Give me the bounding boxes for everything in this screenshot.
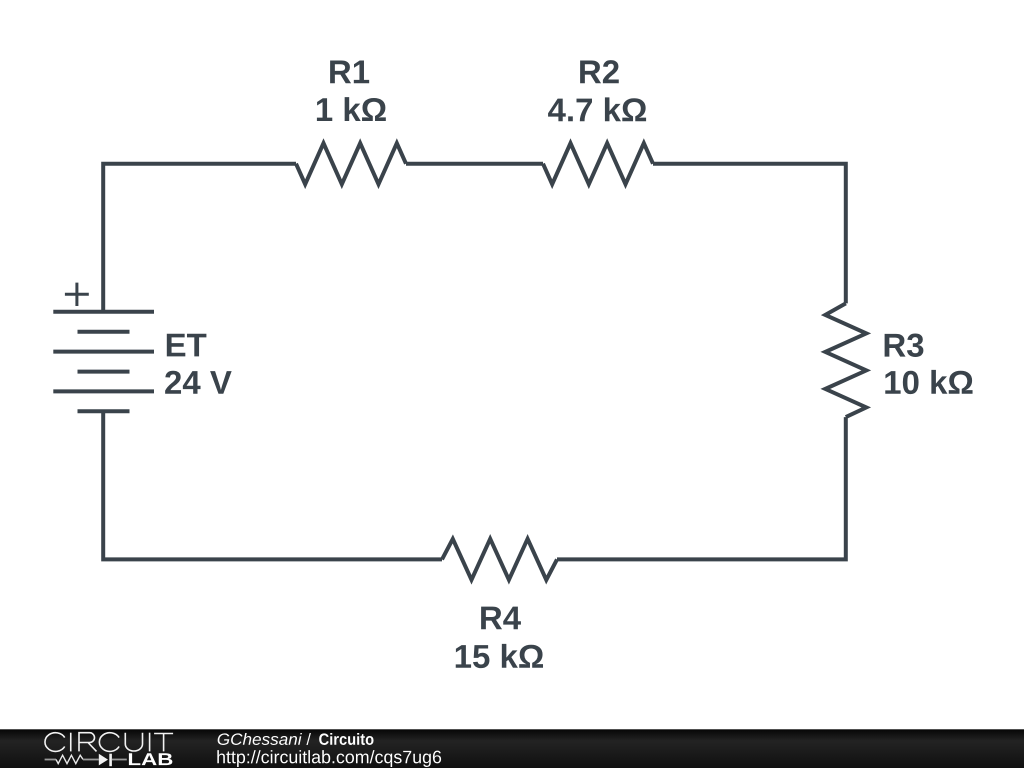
label R1 value 1 kOhm [317,97,386,121]
label R4 designator [481,607,521,630]
label R2 value 4.7 kOhm [548,97,646,121]
battery ET plus sign [65,283,89,306]
wire from battery ET positive terminal up and right to resistor R1 [103,164,296,312]
wire between R1 and R2 [406,162,543,166]
wire from R2 right then down to resistor R3 [653,164,846,304]
footer author text [218,733,302,745]
label R3 value 10 kOhm [885,370,972,394]
logo diode bar [109,754,112,767]
footer separator [306,733,311,745]
footer title [319,733,373,745]
logo CIRCUIT wordmark [45,733,173,752]
logo wire out [112,759,127,761]
logo wire lead-in [45,759,56,761]
resistor R3 [825,303,866,417]
label ET value 24 V [165,371,232,394]
label R2 designator [580,60,619,83]
resistor R2 [543,143,653,184]
wire from R4 left then up to battery ET negative terminal [103,411,442,559]
label ET designator [167,334,207,357]
wire from R3 down then left to resistor R4 [557,417,846,559]
footer url text [217,750,441,767]
battery ET cell plates [53,312,154,412]
resistor R4 [442,539,557,580]
label R4 value 15 kOhm [456,644,543,668]
logo LAB [129,753,172,765]
logo wire mid [83,759,99,761]
footer bar [0,729,1024,768]
resistor R1 [296,143,406,184]
logo diode triangle [99,754,108,766]
label R3 designator [885,334,924,357]
label R1 designator [330,61,369,84]
logo resistor zigzag [56,755,83,763]
